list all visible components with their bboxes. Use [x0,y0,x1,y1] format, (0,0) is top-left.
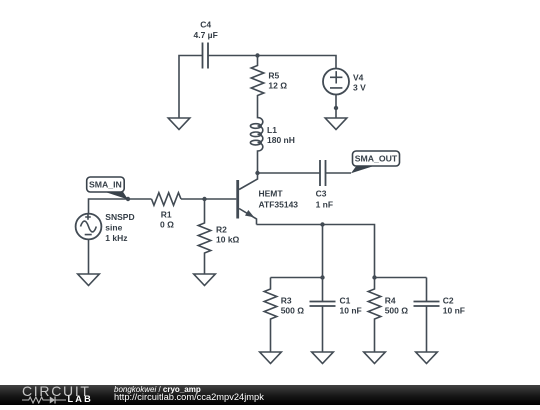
footer credit line [114,386,201,394]
node junction: SMA_IN flag attach [126,197,130,201]
node junction: C1 / R3 rail [320,275,324,279]
svg-text:3 V: 3 V [353,83,366,93]
wire: gate net between R1 and gate [181,198,236,200]
wire: branch down to R3/C1 rail [322,225,324,278]
voltage source V4 [323,69,349,95]
source SNSPD (sine source) [76,214,102,240]
svg-text:R5: R5 [268,71,279,81]
svg-text:sine: sine [105,222,122,232]
svg-text:SMA_OUT: SMA_OUT [355,154,398,164]
svg-text:R4: R4 [385,296,396,306]
ground (below C1) [312,352,334,364]
R3 name and value label [281,296,305,316]
wire: top rail right segment (C4 to V4) [209,56,337,69]
capacitor C2 [414,278,440,353]
C2 name and value label [443,296,465,316]
svg-text:0 Ω: 0 Ω [160,219,174,229]
svg-text:HEMT: HEMT [259,189,284,199]
svg-text:SMA_IN: SMA_IN [89,180,122,190]
resistor R1 [152,193,182,206]
wire: source rail to R4 branch [257,225,375,278]
transistor Q1 HEMT ATF35143 [236,173,257,225]
wire: C3 to SMA_OUT flag [326,172,352,174]
svg-text:L1: L1 [267,125,277,135]
svg-text:12 Ω: 12 Ω [268,81,287,91]
SNSPD name and value label [105,212,134,243]
wire: SNSPD minus to ground [88,239,90,274]
C1 name and value label [340,296,362,316]
svg-text:C3: C3 [316,189,327,199]
wire: V4 minus to ground [335,95,337,119]
svg-text:1 kHz: 1 kHz [105,233,127,243]
svg-text:C4: C4 [200,20,211,30]
R5 name and value label [268,71,287,91]
Q1 name and part label [259,189,299,210]
net flag SMA_OUT [351,151,400,173]
ground (below C2) [416,352,438,364]
node junction: R4 branch / rail [372,275,376,279]
ground (below V4) [325,118,347,130]
wire: R4 to C2 rail [375,277,427,279]
svg-text:R1: R1 [161,209,172,219]
wire: gate net from SNSPD top, left segment [89,199,152,214]
svg-text:R2: R2 [216,224,227,234]
ground (below C4 left side) [168,118,190,130]
capacitor C4 [203,43,209,69]
inductor L1 [250,114,262,173]
svg-text:180 nH: 180 nH [267,135,295,145]
node junction: drain / L1 / C3 [255,171,259,175]
svg-text:10 kΩ: 10 kΩ [216,235,240,245]
C3 name and value label [316,189,333,210]
CircuitLab logo schematic squiggle (resistor + diode) [22,396,67,404]
ground (below R2) [194,274,216,286]
CircuitLab logo wordmark CIRCUIT [22,384,91,398]
svg-text:V4: V4 [353,73,364,83]
capacitor C1 [310,278,336,353]
R4 name and value label [385,296,409,316]
V4 name and value label [353,73,366,93]
resistor R5 [251,56,264,115]
node junction: top rail / R5 [255,53,259,57]
svg-text:C2: C2 [443,296,454,306]
R1 name and value label [160,209,174,229]
resistor R4 [368,278,381,353]
svg-text:10 nF: 10 nF [340,306,362,316]
svg-text:SNSPD: SNSPD [105,212,134,222]
svg-text:500 Ω: 500 Ω [281,306,305,316]
resistor R3 [264,278,277,353]
C4 name and value label [194,20,218,40]
L1 name and value label [267,125,295,145]
ground (below SNSPD) [78,274,100,286]
svg-text:R3: R3 [281,296,292,306]
wire: R3 to C1 rail [271,277,323,279]
node junction: gate rail / R2 [202,197,206,201]
node junction: source rail / C1 branch [320,222,324,226]
capacitor C3 [320,160,326,186]
ground (below R3) [260,352,282,364]
CircuitLab logo wordmark LAB [68,395,93,404]
footer bar [0,385,540,406]
wire: drain rail to C3 [258,172,321,174]
svg-text:C1: C1 [340,296,351,306]
wire: top rail left segment with drop to ground [179,56,202,119]
svg-text:500 Ω: 500 Ω [385,306,409,316]
ground (below R4) [364,352,386,364]
svg-text:10 nF: 10 nF [443,306,465,316]
net flag SMA_IN [87,177,128,200]
node dot on V4 ground wire [334,106,338,110]
resistor R2 [198,199,211,274]
svg-text:ATF35143: ATF35143 [259,200,299,210]
svg-text:1 nF: 1 nF [316,199,333,209]
R2 name and value label [216,224,240,244]
svg-text:4.7 µF: 4.7 µF [194,30,218,40]
